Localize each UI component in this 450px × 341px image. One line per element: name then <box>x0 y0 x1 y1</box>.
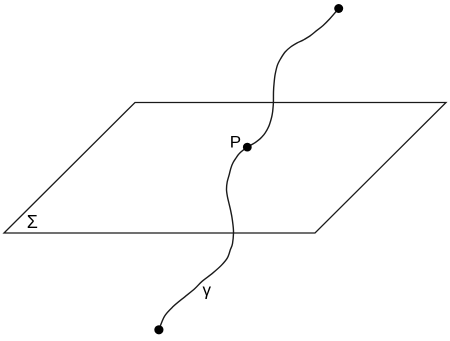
svg-text:γ: γ <box>203 281 212 300</box>
svg-text:Σ: Σ <box>27 212 38 232</box>
point P dot <box>243 143 252 152</box>
plane Sigma (parallelogram) <box>4 103 446 234</box>
endpoint dot (bottom) <box>154 325 163 334</box>
curve gamma <box>159 9 339 330</box>
svg-text:P: P <box>230 132 241 151</box>
endpoint dot (top) <box>334 4 343 13</box>
